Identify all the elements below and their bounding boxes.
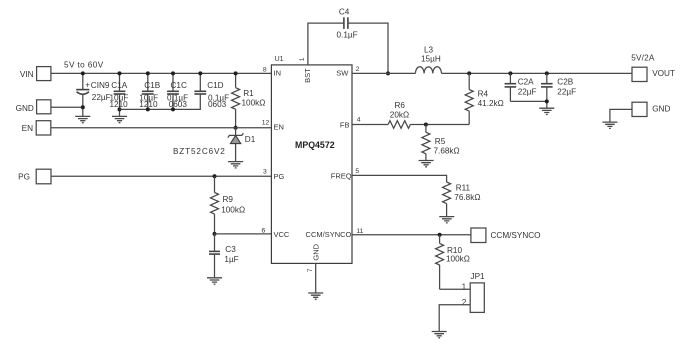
svg-text:8: 8 xyxy=(263,66,267,73)
svg-text:20kΩ: 20kΩ xyxy=(390,111,409,120)
ground (D1) xyxy=(228,162,243,168)
wire FREQ line xyxy=(352,175,447,182)
svg-text:5: 5 xyxy=(355,168,359,175)
svg-text:41.2kΩ: 41.2kΩ xyxy=(478,99,504,108)
svg-text:1µF: 1µF xyxy=(224,255,238,264)
svg-text:GND: GND xyxy=(652,105,670,114)
inductor L3 xyxy=(415,46,441,74)
svg-text:VCC: VCC xyxy=(274,230,290,239)
resistor R4 xyxy=(465,73,504,124)
capacitor C3 xyxy=(209,234,239,278)
svg-text:MPQ4572: MPQ4572 xyxy=(295,140,335,150)
svg-text:C3: C3 xyxy=(225,245,236,254)
resistor R9 xyxy=(211,176,246,234)
capacitor C1B xyxy=(139,73,160,109)
connector PG xyxy=(18,169,51,184)
wire SW line xyxy=(352,72,415,74)
wire C4 to SW node xyxy=(348,23,388,73)
svg-text:7.68kΩ: 7.68kΩ xyxy=(434,147,460,156)
svg-text:22µF: 22µF xyxy=(518,88,537,97)
svg-text:2: 2 xyxy=(356,66,360,73)
node out/C2A xyxy=(508,71,512,75)
pin 2 SW xyxy=(336,66,359,78)
svg-text:GND: GND xyxy=(16,104,34,113)
diode D1 zener xyxy=(173,128,256,162)
svg-text:3: 3 xyxy=(263,169,267,176)
node PG/R9 xyxy=(213,174,217,178)
svg-text:VIN: VIN xyxy=(20,70,34,79)
pin 7 GND xyxy=(307,243,321,272)
svg-text:1210: 1210 xyxy=(139,100,158,109)
wire C2A-C2B bottom rail xyxy=(510,100,546,102)
connector CCM/SYNCO xyxy=(471,228,541,243)
wire IC pin7 to ground xyxy=(315,263,317,293)
svg-text:C2A: C2A xyxy=(518,78,534,87)
ground (C3) xyxy=(207,278,222,284)
connector VIN xyxy=(20,67,51,81)
node VIN/C1A xyxy=(118,71,122,75)
node SW/C4 xyxy=(386,71,390,75)
svg-text:22µF: 22µF xyxy=(92,93,111,102)
svg-text:1: 1 xyxy=(299,57,306,61)
pin 8 IN xyxy=(263,66,281,77)
node VIN/C1B xyxy=(146,71,150,75)
node CCM/R10 xyxy=(438,233,442,237)
wire JP1 pin2 to ground xyxy=(439,305,470,332)
pin 3 PG xyxy=(263,169,284,182)
resistor R5 xyxy=(422,125,460,161)
svg-text:BZT52C6V2: BZT52C6V2 xyxy=(173,147,226,156)
connector GND (right) xyxy=(632,102,670,116)
svg-text:EN: EN xyxy=(274,122,284,131)
connector EN xyxy=(22,121,51,135)
svg-text:15µH: 15µH xyxy=(421,55,441,64)
svg-text:C1C: C1C xyxy=(171,81,187,90)
svg-text:C1D: C1D xyxy=(207,81,223,90)
node VIN/C1C xyxy=(171,71,175,75)
ground (JP1) xyxy=(432,332,447,338)
capacitor C1D xyxy=(194,73,229,109)
svg-text:R1: R1 xyxy=(243,89,254,98)
pin 1 BST xyxy=(299,57,312,83)
node C2B/gnd rail xyxy=(545,99,549,103)
ground (C1A rail) xyxy=(112,116,127,122)
connector VOUT xyxy=(631,54,675,82)
ground (pin 7) xyxy=(308,293,323,299)
capacitor C1A xyxy=(110,73,129,116)
node out/R4 xyxy=(467,71,471,75)
svg-text:+: + xyxy=(85,81,90,90)
svg-text:C1B: C1B xyxy=(144,81,160,90)
ground (R5) xyxy=(419,161,434,167)
svg-text:100kΩ: 100kΩ xyxy=(242,99,266,108)
capacitor C2B xyxy=(541,73,576,108)
wire BST to C4 xyxy=(308,23,344,65)
svg-text:5V/2A: 5V/2A xyxy=(631,54,655,63)
svg-text:CCM/SYNCO: CCM/SYNCO xyxy=(306,230,352,239)
svg-text:100kΩ: 100kΩ xyxy=(446,255,470,264)
svg-text:CIN9: CIN9 xyxy=(91,81,110,90)
svg-text:EN: EN xyxy=(22,124,33,133)
svg-text:PG: PG xyxy=(274,172,285,181)
node rail/C1B xyxy=(146,107,150,111)
svg-text:GND: GND xyxy=(311,243,320,260)
capacitor C4 xyxy=(337,7,358,39)
svg-text:100kΩ: 100kΩ xyxy=(221,206,245,215)
svg-text:PG: PG xyxy=(18,173,30,182)
node GND/CIN9 xyxy=(81,105,85,109)
node rail/C1A xyxy=(118,107,122,111)
wire output rail xyxy=(442,72,633,74)
pin 4 FB xyxy=(340,117,361,130)
svg-text:4: 4 xyxy=(357,117,361,124)
wire GND box to CIN9 xyxy=(51,106,83,108)
wire CCM/SYNCO line xyxy=(352,234,471,236)
resistor R10 xyxy=(436,235,470,289)
svg-text:CCM/SYNCO: CCM/SYNCO xyxy=(491,231,541,240)
resistor R1 xyxy=(232,73,266,127)
node rail/C1C xyxy=(171,107,175,111)
wire R10 to JP1 pin1 xyxy=(440,288,471,290)
node EN/R1/D1 xyxy=(234,126,238,130)
svg-text:D1: D1 xyxy=(245,135,256,144)
wire cap bottom rail xyxy=(120,94,201,109)
svg-text:IN: IN xyxy=(274,69,282,78)
wire EN line xyxy=(51,127,272,129)
svg-text:C2B: C2B xyxy=(557,78,573,87)
pin 5 FREQ xyxy=(331,168,360,180)
ground (C2B) xyxy=(539,108,554,114)
resistor R6 xyxy=(388,101,410,128)
ground (R11) xyxy=(439,217,454,223)
ground (right GND box) xyxy=(602,122,617,128)
svg-text:R11: R11 xyxy=(456,184,471,193)
svg-text:6: 6 xyxy=(262,228,266,235)
svg-text:76.8kΩ: 76.8kΩ xyxy=(454,193,480,202)
svg-text:L3: L3 xyxy=(424,46,434,55)
pin 11 CCM/SYNCO xyxy=(306,228,364,239)
node out/C2B xyxy=(545,71,549,75)
capacitor C2A xyxy=(505,73,537,101)
wire R6 to R4 corner xyxy=(410,124,469,126)
svg-text:7: 7 xyxy=(307,268,314,272)
capacitor C1C xyxy=(167,73,188,109)
node VIN/R1 xyxy=(234,71,238,75)
pin 12 EN xyxy=(262,120,284,132)
svg-text:R5: R5 xyxy=(435,137,446,146)
wire PG line xyxy=(51,175,271,177)
node FB/R5 xyxy=(424,123,428,127)
svg-text:U1: U1 xyxy=(275,56,284,63)
node VIN/C1D xyxy=(198,71,202,75)
pin 6 VCC xyxy=(262,228,290,240)
svg-text:SW: SW xyxy=(336,69,349,78)
ground (CIN9) xyxy=(75,116,90,122)
resistor R11 xyxy=(443,182,481,217)
svg-text:FB: FB xyxy=(340,121,350,130)
connector GND (left) xyxy=(16,100,51,114)
svg-text:C1A: C1A xyxy=(111,81,127,90)
wire VIN rail xyxy=(51,72,272,74)
svg-text:1: 1 xyxy=(462,282,467,291)
svg-text:0603: 0603 xyxy=(169,100,188,109)
svg-text:5V to 60V: 5V to 60V xyxy=(64,60,104,69)
wire GND box to ground xyxy=(610,109,632,122)
connector JP1 xyxy=(462,272,485,312)
svg-text:R6: R6 xyxy=(395,101,406,110)
svg-text:R10: R10 xyxy=(447,246,462,255)
svg-text:0.1µF: 0.1µF xyxy=(337,30,358,39)
svg-text:JP1: JP1 xyxy=(471,272,486,281)
wire VCC line xyxy=(215,233,272,235)
svg-text:2: 2 xyxy=(462,298,467,307)
node VCC/R9/C3 xyxy=(213,232,217,236)
svg-text:12: 12 xyxy=(262,120,270,127)
wire FB line / resistor R6 xyxy=(352,124,388,126)
svg-text:C4: C4 xyxy=(339,7,350,16)
svg-text:VOUT: VOUT xyxy=(652,69,675,78)
svg-text:11: 11 xyxy=(356,228,363,235)
op-amp U1 MPQ4572 body xyxy=(271,56,352,264)
svg-text:0603: 0603 xyxy=(208,100,227,109)
svg-text:22µF: 22µF xyxy=(557,88,576,97)
svg-text:FREQ: FREQ xyxy=(331,171,352,180)
svg-text:R9: R9 xyxy=(223,195,234,204)
capacitor CIN9 xyxy=(76,73,110,116)
node VIN/CIN9 xyxy=(81,71,85,75)
svg-text:BST: BST xyxy=(303,68,312,83)
svg-text:R4: R4 xyxy=(478,89,489,98)
